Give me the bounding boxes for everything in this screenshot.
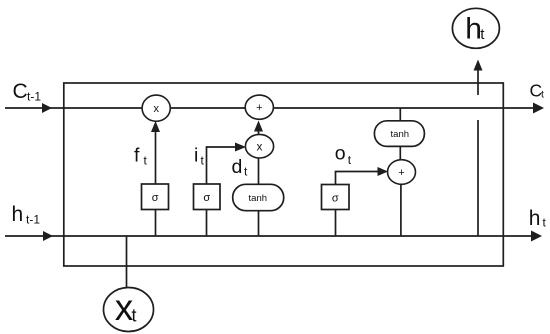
svg-text:t-1: t-1 [27, 90, 41, 104]
svg-text:h: h [12, 203, 24, 226]
svg-text:σ: σ [152, 192, 159, 204]
svg-text:t-1: t-1 [26, 213, 40, 227]
svg-text:t: t [543, 216, 547, 230]
svg-text:t: t [201, 154, 205, 168]
svg-text:x: x [153, 103, 159, 115]
svg-text:σ: σ [332, 193, 339, 205]
svg-text:t: t [541, 89, 544, 101]
svg-text:t: t [144, 154, 148, 168]
svg-text:σ: σ [203, 192, 210, 204]
svg-text:x: x [257, 141, 263, 153]
svg-text:C: C [13, 80, 28, 103]
svg-text:h: h [529, 207, 541, 230]
svg-text:t: t [132, 306, 137, 326]
svg-text:i: i [194, 145, 198, 167]
svg-text:o: o [335, 143, 346, 165]
svg-text:f: f [134, 145, 140, 167]
svg-text:+: + [256, 102, 262, 114]
svg-text:tanh: tanh [391, 129, 410, 140]
svg-text:t: t [348, 153, 352, 167]
svg-text:tanh: tanh [249, 193, 268, 204]
svg-text:t: t [244, 165, 248, 179]
svg-text:+: + [398, 167, 404, 179]
svg-text:d: d [232, 156, 243, 178]
